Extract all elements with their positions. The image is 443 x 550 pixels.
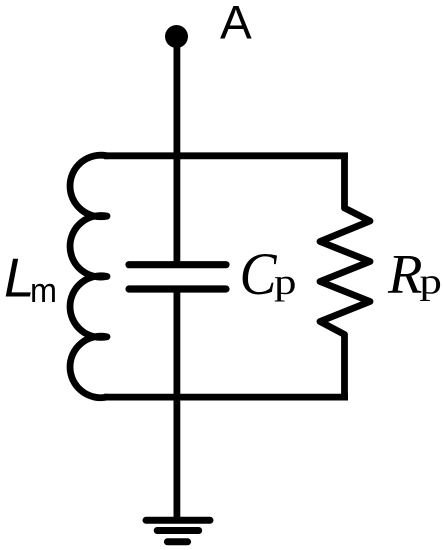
ground bar 3 [167, 538, 187, 545]
svg-text:m: m [30, 272, 57, 310]
svg-text:C: C [240, 241, 278, 308]
inductor Lm coil (4 arcs) [70, 155, 107, 398]
svg-text:A: A [220, 0, 252, 50]
svg-text:p: p [274, 262, 297, 302]
ground bar 2 [157, 527, 199, 534]
resistor Rp branch: top lead, zigzag, bottom lead [320, 156, 370, 397]
capacitor Cp bottom plate [129, 285, 226, 292]
wire: top horizontal rail [104, 152, 348, 159]
svg-text:p: p [419, 262, 442, 302]
svg-text:R: R [387, 244, 423, 306]
wire: bottom horizontal rail [104, 394, 348, 401]
capacitor Cp top plate [129, 261, 226, 268]
node A terminal dot [165, 25, 188, 48]
wire: bottom vertical from capacitor to ground [173, 291, 180, 521]
ground bar 1 [146, 517, 210, 524]
wire: top vertical from node A to capacitor top plate [173, 37, 180, 264]
